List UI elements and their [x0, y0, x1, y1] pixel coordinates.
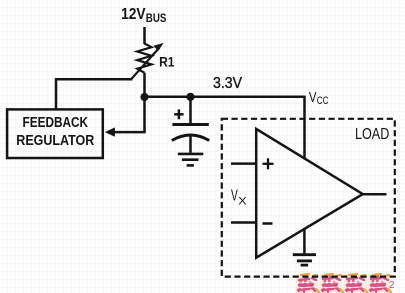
- svg-text:R1: R1: [159, 54, 175, 69]
- wiper arrow of R1: [132, 48, 160, 79]
- wire VCC drop: [303, 96, 306, 159]
- wire into feedback regulator: [113, 131, 146, 134]
- node A junction dot: [140, 93, 148, 101]
- ground under op-amp: [293, 255, 316, 265]
- op-amp - input wire: [231, 221, 256, 224]
- svg-text:LOAD: LOAD: [355, 126, 389, 143]
- op-amp - symbol: [263, 222, 273, 225]
- wire 12VBUS lead to resistor top: [143, 27, 146, 44]
- capacitor C1 bottom lead: [189, 137, 192, 153]
- arrowhead into feedback regulator: [105, 127, 115, 136]
- svg-text:FEEDBACK: FEEDBACK: [23, 115, 89, 131]
- feedback regulator box: [7, 109, 103, 158]
- capacitor C1 plus sign: [174, 109, 183, 119]
- capacitor C1 curved plate: [172, 135, 209, 141]
- wire node A down: [143, 97, 146, 132]
- arrowhead of R1 wiper: [153, 43, 163, 51]
- svg-text:X: X: [238, 196, 247, 208]
- svg-text:V: V: [231, 188, 238, 205]
- svg-text:3.3V: 3.3V: [213, 75, 242, 92]
- wire down to feedback regulator box top: [55, 78, 58, 109]
- wire 3.3V rail: [143, 96, 304, 99]
- wire capacitor top lead: [189, 97, 192, 125]
- ground under capacitor: [178, 154, 204, 166]
- svg-text:CC: CC: [317, 95, 329, 107]
- op-amp U1 triangle: [256, 129, 363, 258]
- op-amp ground lead: [303, 228, 306, 253]
- dashed LOAD box: [222, 119, 395, 277]
- capacitor C1 top plate: [172, 123, 208, 126]
- wire wiper horizontal to left: [56, 78, 133, 81]
- svg-text:V: V: [309, 89, 317, 106]
- svg-text:REGULATOR: REGULATOR: [16, 133, 95, 149]
- watermark: [296, 274, 395, 293]
- svg-text:BUS: BUS: [146, 11, 167, 25]
- op-amp output wire: [363, 193, 387, 196]
- resistor R1 zigzag: [137, 44, 151, 73]
- op-amp + symbol: [263, 158, 274, 169]
- svg-text:2: 2: [389, 280, 395, 291]
- svg-text:12V: 12V: [121, 6, 146, 23]
- wire resistor bottom to node A: [143, 73, 146, 97]
- node B junction dot (capacitor tap): [186, 93, 194, 101]
- op-amp + input wire: [231, 162, 256, 165]
